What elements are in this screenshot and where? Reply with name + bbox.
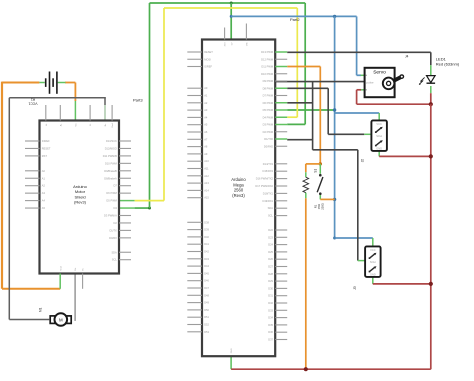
svg-text:D45: D45 xyxy=(204,271,209,275)
green leg: switch S1 top xyxy=(319,164,321,174)
wire red: bottom gnd rail west to mega GND xyxy=(231,368,431,370)
svg-text:A10: A10 xyxy=(204,159,209,163)
mega right pins D14..SCL xyxy=(255,162,287,218)
svg-text:J2: J2 xyxy=(360,159,364,163)
wire green: down to mega D3 xyxy=(304,3,306,124)
junction blue at mega D5 wire xyxy=(333,108,336,111)
svg-text:D39: D39 xyxy=(204,228,209,232)
shield left pins IOREF..A5 xyxy=(25,139,51,210)
svg-text:A-: A- xyxy=(45,123,48,125)
svg-text:D8 PWM: D8 PWM xyxy=(263,86,273,90)
svg-text:D5 PWM: D5 PWM xyxy=(263,108,273,112)
LED1 labels xyxy=(436,56,460,66)
svg-text:SOut: SOut xyxy=(376,134,382,138)
shield title xyxy=(73,184,88,205)
wire yellow: west to mega D4 pin xyxy=(287,116,297,118)
svg-text:D13 PWM: D13 PWM xyxy=(261,50,273,54)
wire orange: bottom west-east to shield Vin pin xyxy=(2,288,60,290)
shield bottom pins xyxy=(60,266,84,289)
mega top pins 3V3 5V VIN xyxy=(225,24,249,47)
wire yellow: down x=297.3 xyxy=(296,8,298,117)
svg-text:D16 PWM/TX2: D16 PWM/TX2 xyxy=(256,177,274,181)
svg-text:D7 PWM: D7 PWM xyxy=(263,94,273,98)
svg-text:D29: D29 xyxy=(268,279,273,283)
wire orange: R1 bottom down to GND rail xyxy=(305,198,307,369)
svg-text:RESET: RESET xyxy=(204,50,213,54)
svg-text:D24: D24 xyxy=(268,243,273,247)
svg-text:VCC: VCC xyxy=(370,248,376,252)
svg-text:D7: D7 xyxy=(113,184,117,188)
svg-text:B-: B- xyxy=(90,123,92,125)
green leg: sensor2 GND xyxy=(372,277,374,284)
svg-text:SOut: SOut xyxy=(370,260,376,264)
wire orange: down to R1 top xyxy=(305,164,307,172)
svg-text:D42: D42 xyxy=(204,250,209,254)
wire green: mega D5 pin to blue vertical xyxy=(287,109,334,111)
svg-text:D2 PWM: D2 PWM xyxy=(263,130,273,134)
green leg: mega GND bottom pin xyxy=(230,356,232,369)
svg-text:A11: A11 xyxy=(204,167,209,171)
wire gray: mega D13 to LED anode xyxy=(287,51,431,53)
svg-text:SDA: SDA xyxy=(111,250,117,254)
svg-text:D51: D51 xyxy=(204,315,209,319)
green leg: shield D5 pin xyxy=(119,200,135,202)
svg-text:A4: A4 xyxy=(204,115,208,119)
Arduino Mega 2560 (Rev3) body xyxy=(202,40,275,357)
svg-text:D22: D22 xyxy=(268,228,273,232)
junction red R1 column xyxy=(304,367,308,371)
svg-text:D10 PWM: D10 PWM xyxy=(261,72,273,76)
svg-text:RST: RST xyxy=(42,154,48,158)
green leg: sensor2 VCC xyxy=(372,238,374,246)
svg-text:D13/SCK: D13/SCK xyxy=(106,139,117,143)
wire red: down xyxy=(356,90,358,104)
wire blue: main vertical x=334.6 xyxy=(334,16,336,238)
svg-text:A2: A2 xyxy=(204,101,208,105)
servo horn xyxy=(383,74,404,89)
wire gray: down x=328.2 xyxy=(327,88,329,134)
wire green: shield D4 east xyxy=(135,207,150,209)
wire green: vertical up x=149.5 xyxy=(149,3,151,208)
svg-text:D18/TX1: D18/TX1 xyxy=(263,191,274,195)
svg-text:D6 PWM: D6 PWM xyxy=(263,101,273,105)
junction blue on green vertical xyxy=(230,15,233,18)
svg-text:A5: A5 xyxy=(204,123,208,127)
junction red sensor1 xyxy=(429,154,433,158)
green leg: shield top pin5 xyxy=(104,105,106,121)
green leg: switch S1 bottom xyxy=(319,195,321,200)
Arduino Motor Shield (Rev3) body xyxy=(40,121,120,274)
svg-text:D25: D25 xyxy=(268,250,273,254)
svg-text:D30: D30 xyxy=(268,286,273,290)
green leg: servo v+ xyxy=(361,74,365,76)
svg-text:A2: A2 xyxy=(42,184,46,188)
svg-text:D53: D53 xyxy=(204,330,209,334)
wire gray: mega D9 to servo pulse xyxy=(276,81,365,83)
svg-text:A13: A13 xyxy=(204,181,209,185)
svg-text:D31: D31 xyxy=(268,294,273,298)
green leg: R1 top xyxy=(305,172,307,177)
resistor R1 220ohm zigzag xyxy=(303,177,309,193)
svg-text:D50: D50 xyxy=(204,308,209,312)
svg-text:D1/TX0: D1/TX0 xyxy=(264,137,273,141)
svg-text:M-: M- xyxy=(83,268,85,271)
wire gray: mega D8 east xyxy=(287,87,328,89)
wire orange: west to R1 column xyxy=(306,163,321,165)
wire gray: top horizontal west xyxy=(9,97,106,99)
green leg: sensor2 SOut xyxy=(358,260,365,262)
green leg: sensor1 SOut xyxy=(364,133,371,135)
green leg: shield D4 pin xyxy=(119,207,135,209)
svg-text:SCL: SCL xyxy=(112,258,118,262)
wire orange: mega D11 east xyxy=(287,66,320,68)
svg-text:D52: D52 xyxy=(204,323,209,327)
svg-text:GND: GND xyxy=(376,146,382,150)
svg-text:D4 PWM: D4 PWM xyxy=(263,115,273,119)
svg-text:GND: GND xyxy=(231,348,233,353)
svg-text:A3: A3 xyxy=(42,191,46,195)
wire orange: S1 bottom east to blue vertical xyxy=(320,198,334,200)
svg-text:J4: J4 xyxy=(405,54,409,58)
junction orange xyxy=(319,162,322,165)
svg-text:A1: A1 xyxy=(204,94,208,98)
svg-text:D44: D44 xyxy=(204,264,209,268)
svg-text:M: M xyxy=(59,317,63,322)
svg-text:RESET: RESET xyxy=(42,146,51,150)
wire gray: shield top pin5 up xyxy=(104,98,106,105)
svg-text:SDA: SDA xyxy=(268,206,274,210)
svg-text:D0/RX: D0/RX xyxy=(109,236,117,240)
mega title xyxy=(231,177,246,198)
wire green: top rail xyxy=(150,2,306,4)
svg-text:D23: D23 xyxy=(268,235,273,239)
junction blue xyxy=(333,15,336,18)
svg-text:VIN: VIN xyxy=(247,42,249,46)
wire gray: mega D6 stub wire xyxy=(287,102,312,104)
svg-text:Servo: Servo xyxy=(373,70,386,76)
green leg: sensor1 GND xyxy=(378,151,380,157)
svg-text:R1: R1 xyxy=(314,204,318,208)
svg-text:D8/BrakeA: D8/BrakeA xyxy=(104,176,117,180)
junction blue at switch wire xyxy=(333,198,336,201)
shield right pins D13..SCL xyxy=(103,139,131,262)
svg-text:D11 PWM/B: D11 PWM/B xyxy=(103,154,117,158)
wire gray: down x=357.8 to sensor2 SOut xyxy=(357,150,359,261)
svg-text:A15: A15 xyxy=(204,196,209,200)
svg-text:D47: D47 xyxy=(204,286,209,290)
wire blue: east to servo v+ pin xyxy=(357,74,361,76)
wire red: east to LED junction xyxy=(357,103,431,105)
svg-text:D4: D4 xyxy=(113,206,117,210)
svg-text:D3 PWM: D3 PWM xyxy=(263,123,273,127)
svg-text:D9/BrakeB: D9/BrakeB xyxy=(104,169,117,173)
wire red: LED cathode down xyxy=(430,93,432,104)
svg-text:D38: D38 xyxy=(204,220,209,224)
svg-text:A4: A4 xyxy=(42,199,46,203)
svg-text:A7: A7 xyxy=(204,137,208,141)
wire gray: east to sensor1 SOut xyxy=(328,133,364,135)
green leg: servo gnd xyxy=(361,89,365,91)
svg-text:A1: A1 xyxy=(31,98,35,102)
svg-text:pulse: pulse xyxy=(366,80,374,84)
resistor R1 label xyxy=(314,203,325,210)
battery label A1 VCC1 (rotated 180) xyxy=(28,98,37,106)
svg-text:D43: D43 xyxy=(204,257,209,261)
wire blue: down to servo v+ xyxy=(356,16,358,75)
svg-text:IOREF: IOREF xyxy=(42,139,50,143)
junction green at mega 5V column xyxy=(230,2,233,5)
wire orange: battery plus east xyxy=(65,82,75,84)
svg-text:A0: A0 xyxy=(42,169,46,173)
svg-text:A3: A3 xyxy=(204,108,208,112)
svg-text:A0: A0 xyxy=(204,86,208,90)
svg-text:D12/MISO: D12/MISO xyxy=(105,146,117,150)
wire green: west to mega D3 pin xyxy=(287,123,305,125)
svg-text:Red (633nm): Red (633nm) xyxy=(436,62,460,67)
svg-text:D3 PWM/A: D3 PWM/A xyxy=(104,214,117,218)
battery A1 (VCC1) xyxy=(39,72,65,94)
sensor J2 (VCC/SOut/GND) xyxy=(371,120,387,150)
svg-text:D0/RX0: D0/RX0 xyxy=(264,144,274,148)
svg-text:D41: D41 xyxy=(204,242,209,246)
svg-text:D5 PWM: D5 PWM xyxy=(106,199,116,203)
svg-text:D10 PWM: D10 PWM xyxy=(105,161,117,165)
wire gray: to motor left terminal xyxy=(9,319,49,321)
svg-text:D28: D28 xyxy=(268,272,273,276)
svg-text:D15/RX3: D15/RX3 xyxy=(262,169,273,173)
mega right pins D13..D0 xyxy=(261,50,287,148)
switch S1 xyxy=(317,174,323,195)
svg-text:D19/RX1: D19/RX1 xyxy=(262,199,273,203)
svg-text:D1/TX: D1/TX xyxy=(109,228,117,232)
svg-text:D49: D49 xyxy=(204,301,209,305)
svg-text:A9: A9 xyxy=(204,152,208,156)
green leg: R1 bottom xyxy=(305,193,307,199)
svg-text:D9 PWM: D9 PWM xyxy=(263,79,273,83)
bendpoint green xyxy=(148,207,151,210)
svg-text:A5: A5 xyxy=(42,206,46,210)
wire yellow: shield D5 east xyxy=(135,200,164,202)
wire green: mega 5V pin up xyxy=(230,3,232,40)
shield top pins xyxy=(45,105,114,128)
svg-text:J3: J3 xyxy=(353,286,357,290)
svg-text:IOREF: IOREF xyxy=(204,65,212,69)
svg-text:±5%: ±5% xyxy=(317,203,321,209)
wire red: sensor2 gnd east xyxy=(373,283,431,285)
svg-text:Part2: Part2 xyxy=(290,17,300,22)
svg-text:GND: GND xyxy=(370,272,376,276)
green leg: sensor1 VCC xyxy=(378,113,380,120)
wire red: servo gnd west xyxy=(357,89,361,91)
svg-text:D33: D33 xyxy=(268,308,273,312)
mega left pins D38..D53 xyxy=(187,220,209,333)
wire yellow: vertical up x=164 xyxy=(163,8,165,201)
svg-text:D34: D34 xyxy=(268,316,273,320)
svg-text:Part3: Part3 xyxy=(133,98,143,103)
svg-text:(Rev3): (Rev3) xyxy=(232,193,245,198)
wire gray: shield bottom pin to motor right terminal xyxy=(74,274,76,321)
wire yellow: top rail xyxy=(164,7,297,9)
svg-text:D14/TX3: D14/TX3 xyxy=(263,162,274,166)
svg-text:220Ω: 220Ω xyxy=(321,203,325,210)
wire orange: battery minus west xyxy=(2,82,39,84)
wire gray: east y=149.8 xyxy=(313,149,358,151)
wire gray: mega D1/TX0 stub wire xyxy=(287,139,312,141)
svg-text:A1: A1 xyxy=(42,176,46,180)
wire blue: horizontal y=16.4 xyxy=(231,15,356,17)
mega left pins RESET MOSI IOREF xyxy=(187,50,213,69)
svg-text:D40: D40 xyxy=(204,235,209,239)
svg-text:D37: D37 xyxy=(268,338,273,342)
svg-text:D32: D32 xyxy=(268,301,273,305)
wire gray: left vertical down xyxy=(8,98,10,320)
mega right pins D22..D37 xyxy=(268,228,287,342)
wire blue: to sensor1 VCC xyxy=(335,112,380,114)
LED1 symbol xyxy=(419,76,435,85)
svg-text:D46: D46 xyxy=(204,279,209,283)
wire red: right vertical gnd rail xyxy=(430,104,432,369)
wire orange: left edge vertical xyxy=(1,82,3,289)
junction red LED xyxy=(429,102,433,106)
motor M1 xyxy=(50,313,71,326)
wire blue: corner to sensor2 VCC xyxy=(333,237,336,240)
svg-text:VCC: VCC xyxy=(376,122,382,126)
wire gray: branch vertical x=312.6 xyxy=(312,82,314,150)
svg-text:A14: A14 xyxy=(204,188,209,192)
servo J4 body xyxy=(365,68,395,97)
junction red sensor2 xyxy=(429,282,433,286)
green leg: LED cathode xyxy=(430,86,432,93)
svg-text:D48: D48 xyxy=(204,293,209,297)
svg-text:D6 PWM: D6 PWM xyxy=(106,191,116,195)
mega left pins A0..A15 xyxy=(187,86,209,200)
svg-text:D17 PWM/RX2: D17 PWM/RX2 xyxy=(255,184,273,188)
svg-text:A8: A8 xyxy=(204,145,208,149)
svg-text:D27: D27 xyxy=(268,265,273,269)
svg-text:A12: A12 xyxy=(204,174,209,178)
svg-text:D35: D35 xyxy=(268,323,273,327)
svg-text:D36: D36 xyxy=(268,330,273,334)
wire red: sensor1 gnd east xyxy=(379,155,431,157)
svg-text:MOSI: MOSI xyxy=(204,57,211,61)
wire orange: down to shield top pin xyxy=(74,83,76,102)
svg-text:D26: D26 xyxy=(268,257,273,261)
sensor J3 (VCC/SOut/GND) xyxy=(365,246,381,277)
svg-text:SCL: SCL xyxy=(268,214,274,218)
svg-text:D12 PWM: D12 PWM xyxy=(261,57,273,61)
svg-text:M1: M1 xyxy=(39,307,43,312)
svg-text:(Rev3): (Rev3) xyxy=(74,200,87,205)
wire orange: down x=320.3 xyxy=(319,67,321,164)
svg-text:S1: S1 xyxy=(313,169,317,173)
svg-text:D2: D2 xyxy=(113,221,117,225)
svg-text:D11 PWM: D11 PWM xyxy=(261,65,273,69)
green leg: shield top pin3 connected xyxy=(74,101,76,121)
green leg: LED anode xyxy=(430,65,432,75)
svg-text:A6: A6 xyxy=(204,130,208,134)
